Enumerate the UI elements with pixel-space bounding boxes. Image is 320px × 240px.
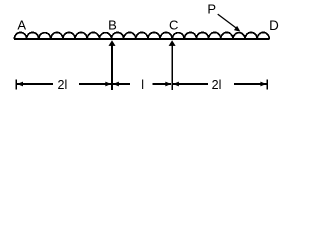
dimension line segment l middle <box>113 82 171 87</box>
dimension line segment 2l right <box>173 82 267 87</box>
svg-text:2l: 2l <box>58 78 68 92</box>
coil loops (21 humps) <box>14 32 269 39</box>
dimension line segment 2l left <box>17 82 111 87</box>
svg-text:D: D <box>269 18 279 33</box>
support arrow at B <box>109 40 116 90</box>
svg-text:A: A <box>17 18 26 33</box>
svg-text:2l: 2l <box>212 78 222 92</box>
svg-text:C: C <box>169 18 178 33</box>
support arrow at C <box>169 40 176 90</box>
svg-text:l: l <box>141 78 144 92</box>
wire: coil baseline A-D <box>14 38 270 40</box>
P pointer arrow <box>218 14 241 32</box>
svg-text:P: P <box>207 2 216 17</box>
dimension left tick <box>15 80 17 90</box>
svg-text:B: B <box>108 18 117 33</box>
dimension right tick <box>266 80 268 90</box>
